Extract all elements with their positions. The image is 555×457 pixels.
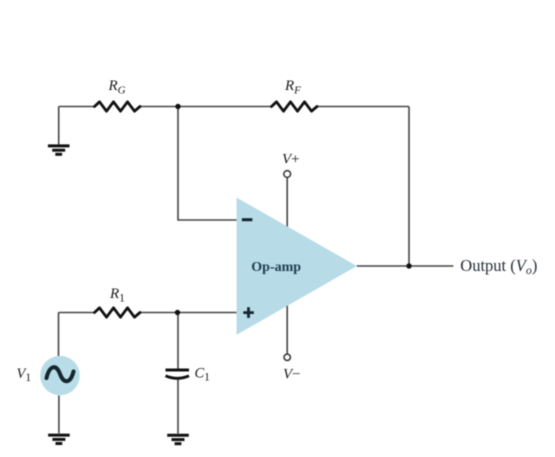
svg-text:Op-amp: Op-amp (251, 260, 301, 275)
svg-text:V+: V+ (282, 152, 300, 168)
svg-text:V−: V− (283, 366, 301, 382)
svg-text:Output (Vo): Output (Vo) (460, 256, 537, 277)
